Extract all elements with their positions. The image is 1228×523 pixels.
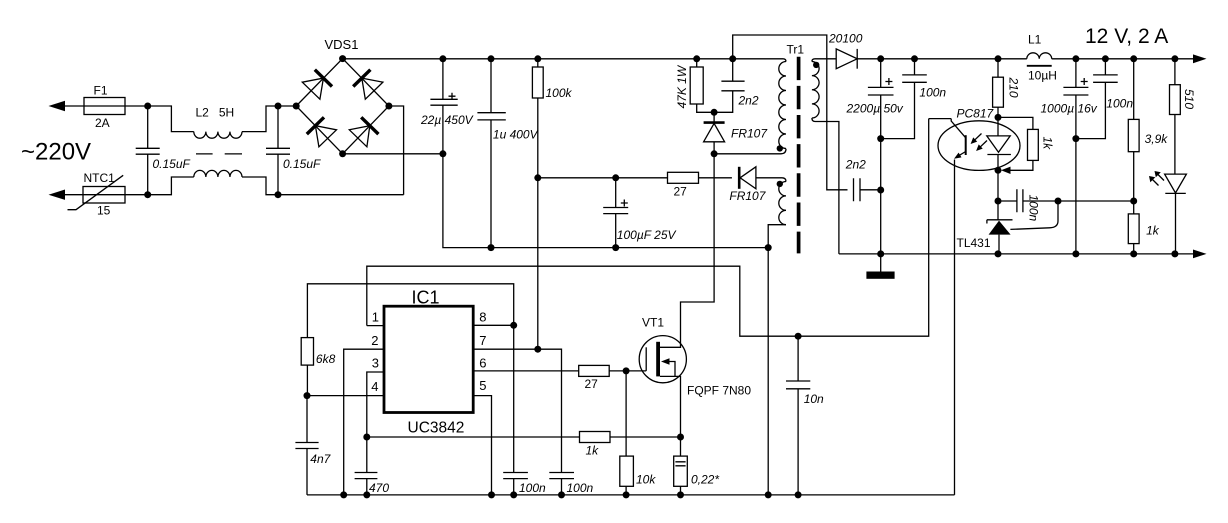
svg-text:10µH: 10µH bbox=[1028, 69, 1057, 83]
resistor 27 (VCC series) bbox=[668, 172, 699, 183]
wire: Y-cap riser over transformer bbox=[733, 35, 848, 190]
svg-text:0,22*: 0,22* bbox=[691, 472, 719, 486]
node: LED bottom on rail bbox=[1171, 250, 1178, 257]
capacitor 100n (VREF bypass) bbox=[503, 473, 528, 495]
node: pin4 / 6k8 / 4n7 junction bbox=[304, 392, 311, 399]
inductor L2 core dashes bbox=[196, 153, 242, 155]
bridge node bottom bbox=[339, 150, 346, 157]
svg-text:UC3842: UC3842 bbox=[408, 420, 465, 437]
svg-text:510: 510 bbox=[1182, 89, 1196, 109]
node: Y-cap to ground line bbox=[877, 187, 884, 194]
VT1 source bbox=[660, 376, 681, 437]
wire: DC- junction down to bottom rail bbox=[767, 248, 769, 495]
inductor L2 upper winding bbox=[194, 132, 242, 139]
svg-text:1u 400V: 1u 400V bbox=[493, 128, 539, 142]
wire: bridge right node down to AC return bbox=[389, 106, 404, 195]
svg-text:100n: 100n bbox=[567, 481, 594, 495]
node pin 7 VCC bbox=[534, 346, 541, 353]
node: drain / primary bottom junction bbox=[711, 150, 718, 157]
node top rail 22u bbox=[439, 55, 446, 62]
primary phasing dot bbox=[777, 145, 783, 151]
svg-text:NTC1: NTC1 bbox=[84, 171, 116, 185]
svg-text:L1: L1 bbox=[1028, 33, 1042, 47]
node: cap2 top junction bbox=[275, 103, 282, 110]
svg-text:1: 1 bbox=[372, 310, 379, 325]
svg-text:TL431: TL431 bbox=[957, 236, 991, 250]
svg-text:10n: 10n bbox=[804, 392, 824, 406]
capacitor 1000µ 16v bbox=[1063, 59, 1088, 254]
transistor VT1 FQPF 7N80 bbox=[639, 336, 686, 383]
node rail 10k bbox=[623, 491, 630, 498]
svg-text:F1: F1 bbox=[94, 83, 108, 97]
capacitor 4n7 bbox=[295, 396, 318, 495]
pin 3 stub and CS run bbox=[367, 372, 384, 473]
svg-text:100k: 100k bbox=[546, 86, 573, 100]
bridge node right bbox=[385, 103, 392, 110]
resistor 0,22* bbox=[680, 437, 682, 495]
resistor 6k8 bbox=[301, 338, 313, 366]
bridge rectifier VDS1 frame bbox=[296, 59, 389, 154]
node: snubber RC to diode bbox=[711, 109, 718, 116]
VT1 channel bar bbox=[656, 342, 660, 377]
node: 100k / VCC feed junction bbox=[534, 174, 541, 181]
VT1 substrate arrow bbox=[664, 362, 675, 377]
svg-text:27: 27 bbox=[585, 377, 599, 391]
LED indicator bbox=[1165, 174, 1187, 193]
transformer secondary winding bbox=[812, 62, 819, 118]
bridge diode bottom-right bbox=[349, 117, 378, 147]
capacitor 100n (after rectifier) bbox=[881, 59, 927, 139]
opto LED bottom node bbox=[995, 167, 1002, 174]
wire: aux winding bottom to DC- junction bbox=[768, 225, 786, 248]
wire: opto emitter run to bottom rail bbox=[954, 160, 956, 495]
node rail divider bbox=[1130, 55, 1137, 62]
svg-text:100n: 100n bbox=[919, 86, 946, 100]
node: DC- rail end junction bbox=[765, 244, 772, 251]
AC input arrow top bbox=[49, 101, 66, 111]
svg-text:10k: 10k bbox=[636, 472, 656, 486]
node: gate junction bbox=[623, 367, 630, 374]
capacitor 10n bbox=[786, 336, 810, 495]
svg-text:100n: 100n bbox=[519, 481, 546, 495]
node: ref wire junction bbox=[1055, 198, 1062, 205]
bridge diode bottom-left bbox=[307, 117, 337, 147]
wire: TL431 ref bbox=[1010, 201, 1058, 229]
opto phototransistor bbox=[951, 119, 966, 157]
node rail 100n bbox=[911, 55, 918, 62]
capacitor 100n (VCC bypass) bbox=[549, 473, 574, 495]
node top rail 1u bbox=[488, 55, 495, 62]
wire: 6k8 to junction bbox=[306, 365, 308, 396]
secondary phasing dot bbox=[813, 62, 819, 68]
wire: secondary ground rail bbox=[839, 253, 1203, 255]
resistor 1k (opto bypass) bbox=[998, 117, 1033, 170]
node top rail 47K bbox=[693, 55, 700, 62]
wire: secondary top to diode bbox=[812, 59, 836, 62]
wire AC bottom to NTC junction bbox=[62, 194, 148, 196]
bridge node top bbox=[339, 55, 346, 62]
transformer aux winding bbox=[779, 182, 786, 225]
capacitor 2n2 (Y-cap) bbox=[854, 178, 881, 201]
resistor 47K 1W bbox=[697, 59, 714, 113]
pin 5 stub to ground rail bbox=[473, 396, 491, 495]
wire: output top rail bbox=[857, 58, 1203, 60]
transformer primary winding bbox=[779, 62, 786, 149]
pin 6 stub and gate wire bbox=[473, 370, 646, 372]
wire: gate to 10k bbox=[625, 371, 627, 456]
wire: 22u down to DC- rail corner bbox=[443, 154, 768, 248]
capacitor 100µF 25V bbox=[603, 178, 628, 248]
capacitor 1u 400V bbox=[477, 59, 505, 248]
svg-text:8: 8 bbox=[479, 310, 486, 325]
svg-text:47K 1W: 47K 1W bbox=[675, 64, 689, 108]
svg-text:12 V, 2 A: 12 V, 2 A bbox=[1085, 25, 1168, 48]
node top rail 2n2 snubber bbox=[729, 55, 736, 62]
node rail pin2 bbox=[340, 491, 347, 498]
node rail 100n out bbox=[1102, 55, 1109, 62]
svg-text:1k: 1k bbox=[586, 443, 600, 457]
node rail 0,22 bbox=[677, 491, 684, 498]
wire: junction to primary winding bottom bbox=[714, 149, 786, 154]
svg-text:0.15uF: 0.15uF bbox=[283, 157, 321, 171]
resistor 3,9k bbox=[1133, 59, 1135, 201]
svg-text:Tr1: Tr1 bbox=[787, 43, 805, 57]
resistor 1k (divider low) bbox=[1133, 201, 1135, 254]
wire: DC+ top rail bbox=[343, 59, 786, 62]
svg-text:FR107: FR107 bbox=[731, 127, 768, 141]
node rail 210 bbox=[995, 55, 1002, 62]
capacitor 2n2 (snubber) bbox=[714, 59, 745, 113]
opto light arrows bbox=[971, 134, 987, 152]
svg-text:2n2: 2n2 bbox=[845, 158, 866, 172]
node: 1000u bottom on rail bbox=[1072, 250, 1079, 257]
pin 7 stub and VCC run bbox=[473, 349, 561, 472]
svg-text:~220V: ~220V bbox=[21, 139, 91, 166]
node pin 8 / VREF bbox=[510, 322, 517, 329]
svg-text:27: 27 bbox=[674, 185, 688, 199]
diode FR107 (snubber clamp) bbox=[713, 112, 715, 154]
pin 1 stub bbox=[367, 325, 384, 327]
wire: secondary bottom down to secondary ground rail bbox=[812, 118, 839, 254]
node: 100uF bottom on rail bbox=[612, 244, 619, 251]
svg-text:1000µ 16v: 1000µ 16v bbox=[1041, 102, 1098, 116]
wire: L2 upper to bridge left node bbox=[242, 106, 296, 132]
resistor 510 bbox=[1174, 59, 1176, 174]
wire top: junction to L2 upper winding bbox=[148, 106, 194, 132]
node: divider bottom on rail bbox=[1130, 250, 1137, 257]
node rail 100n vref bbox=[510, 491, 517, 498]
node rail pin5 bbox=[488, 491, 495, 498]
node: TL431 cathode / 100n junction bbox=[995, 198, 1002, 205]
svg-text:IC1: IC1 bbox=[412, 288, 440, 308]
node: NTC/cap junction bottom bbox=[144, 191, 151, 198]
node rail 1000u bbox=[1072, 55, 1079, 62]
node rail 2200u bbox=[877, 55, 884, 62]
shunt regulator TL431 bbox=[997, 170, 999, 220]
svg-text:2n2: 2n2 bbox=[738, 94, 759, 108]
IC U1 box UC3842 bbox=[384, 306, 473, 412]
wire: drain riser to MOSFET bbox=[660, 154, 714, 347]
bridge node left bbox=[293, 103, 300, 110]
wire: primary ground bottom rail bbox=[307, 494, 955, 496]
svg-text:15: 15 bbox=[97, 204, 111, 218]
capacitor 0.15uF (right X-cap) bbox=[266, 106, 290, 195]
node rail 100n vcc bbox=[558, 491, 565, 498]
wire: CS line to sense resistor bbox=[367, 436, 681, 438]
node top rail 100k bbox=[534, 55, 541, 62]
svg-text:2: 2 bbox=[371, 333, 378, 348]
resistor 27 (gate) bbox=[579, 365, 610, 376]
output arrow bottom bbox=[1193, 250, 1207, 259]
opto internal LED bbox=[997, 117, 999, 170]
wire: VCC feed line bbox=[538, 177, 732, 179]
svg-text:VT1: VT1 bbox=[642, 316, 664, 330]
node: divider junction bbox=[1130, 198, 1137, 205]
capacitor 100n (TL431 feedback) bbox=[998, 189, 1134, 212]
pin 8 stub bbox=[473, 324, 514, 326]
node: 100uF top bbox=[612, 174, 619, 181]
wire AC top to fuse junction bbox=[62, 105, 148, 107]
VT1 gate bar bbox=[645, 347, 647, 371]
svg-text:2A: 2A bbox=[95, 116, 110, 130]
node: fuse/cap junction top bbox=[144, 103, 151, 110]
diode 20100 bbox=[836, 49, 857, 69]
svg-text:100n: 100n bbox=[1106, 97, 1133, 111]
bridge diode top-left bbox=[302, 70, 332, 100]
svg-text:470: 470 bbox=[369, 481, 389, 495]
svg-text:100µF 25V: 100µF 25V bbox=[617, 228, 677, 242]
node rail 510 bbox=[1171, 55, 1178, 62]
node rail DC- link bbox=[765, 491, 772, 498]
output arrow top bbox=[1193, 54, 1207, 63]
capacitor 22µ 450V bbox=[430, 59, 457, 154]
wire: bridge bottom to 22u bbox=[343, 153, 443, 155]
node: 100n to 1000u line bbox=[1072, 135, 1079, 142]
diode FR107 (aux rectifier) bbox=[738, 167, 741, 189]
svg-text:4: 4 bbox=[371, 379, 378, 394]
node: 22u mid junction bbox=[439, 150, 446, 157]
fuse F1 bbox=[84, 98, 125, 115]
svg-text:VDS1: VDS1 bbox=[325, 37, 359, 52]
node: CS junction bbox=[363, 434, 370, 441]
optocoupler PC817 body bbox=[938, 121, 1020, 171]
node: TL431 anode on rail bbox=[995, 250, 1002, 257]
svg-text:PC817: PC817 bbox=[957, 106, 995, 120]
wire: 100k junction down to pin 7 bbox=[537, 178, 539, 349]
node: 2200u bottom on ground rail bbox=[877, 250, 884, 257]
svg-text:1k: 1k bbox=[1146, 224, 1160, 238]
svg-text:6k8: 6k8 bbox=[316, 352, 336, 366]
svg-text:5: 5 bbox=[479, 378, 486, 393]
capacitor 2200µ 50v bbox=[868, 59, 894, 254]
svg-text:1k: 1k bbox=[1041, 137, 1055, 151]
node rail 470 bbox=[363, 491, 370, 498]
wire: VREF net (6k8 top over IC to pin 8 and 100n) bbox=[307, 284, 513, 473]
node: 10n top bbox=[795, 333, 802, 340]
svg-text:L2 5H: L2 5H bbox=[196, 106, 235, 120]
svg-text:7: 7 bbox=[479, 333, 486, 348]
node: source sense junction bbox=[677, 434, 684, 441]
capacitor 0.15uF (left X-cap) bbox=[136, 106, 160, 195]
svg-text:FQPF 7N80: FQPF 7N80 bbox=[687, 383, 751, 397]
capacitor 100n (output) bbox=[1076, 59, 1118, 139]
opto LED top node bbox=[995, 114, 1002, 121]
svg-text:FR107: FR107 bbox=[729, 189, 766, 203]
aux phasing dot bbox=[777, 181, 783, 187]
svg-text:2200µ 50v: 2200µ 50v bbox=[846, 102, 904, 116]
svg-text:20100: 20100 bbox=[828, 32, 863, 46]
resistor 100k bbox=[537, 59, 539, 178]
arrowhead on 1k return wire bbox=[1001, 167, 1011, 174]
capacitor 470 bbox=[355, 473, 378, 495]
svg-text:4n7: 4n7 bbox=[310, 452, 331, 466]
node rail 10n bbox=[795, 491, 802, 498]
LED light arrows bbox=[1149, 171, 1164, 186]
node: cap2 bottom junction bbox=[275, 191, 282, 198]
inductor L1 bbox=[1027, 53, 1052, 59]
resistor 210 bbox=[997, 59, 999, 118]
svg-text:22µ 450V: 22µ 450V bbox=[420, 113, 474, 127]
svg-text:6: 6 bbox=[479, 356, 486, 371]
svg-text:3: 3 bbox=[372, 356, 379, 371]
bridge diode top-right bbox=[353, 70, 383, 100]
thermistor NTC1 bbox=[83, 187, 125, 204]
svg-text:3,9k: 3,9k bbox=[1145, 132, 1169, 146]
wire: opto collector run to COMP bbox=[367, 119, 951, 337]
node: 100n to 2200u line bbox=[877, 135, 884, 142]
svg-text:0.15uF: 0.15uF bbox=[153, 157, 191, 171]
pin 4 stub bbox=[307, 395, 384, 397]
resistor 10k bbox=[620, 456, 634, 486]
transformer Tr1 core bbox=[797, 57, 801, 254]
pin 2 stub and ground run bbox=[344, 349, 384, 495]
node: 1u bottom on rail bbox=[488, 244, 495, 251]
ground symbol bbox=[880, 254, 882, 272]
svg-text:210: 210 bbox=[1007, 77, 1021, 98]
wire: L2 lower to bridge right-side return bbox=[242, 177, 404, 195]
AC input arrow bottom bbox=[49, 190, 66, 200]
svg-text:100n: 100n bbox=[1027, 195, 1041, 222]
resistor 1k (CS filter) bbox=[580, 432, 611, 443]
wire bottom: junction to L2 lower winding bbox=[148, 177, 194, 195]
inductor L2 lower winding bbox=[194, 170, 242, 177]
